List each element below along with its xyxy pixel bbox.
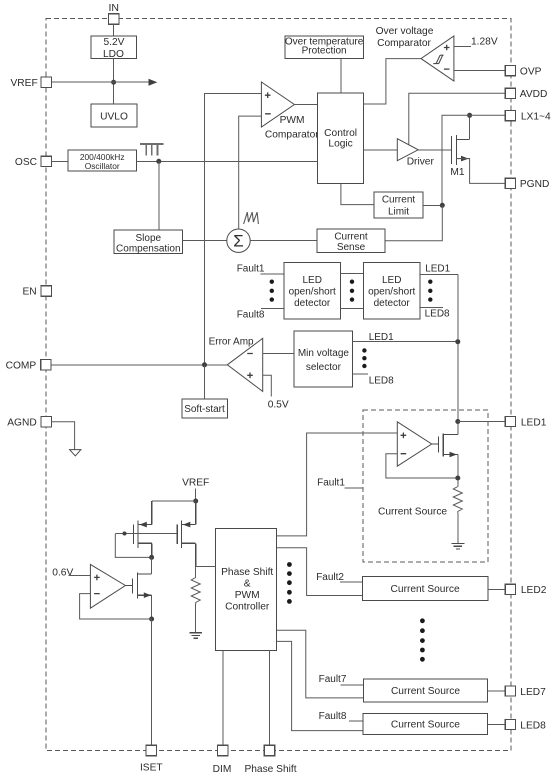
pin PGND	[505, 178, 549, 190]
wire PWM8 to current source 8	[276, 641, 363, 730]
wire driver to M1 gate	[418, 149, 451, 151]
svg-text:Protection: Protection	[302, 46, 347, 57]
svg-text:LED: LED	[382, 275, 401, 286]
svg-text:VREF: VREF	[182, 478, 209, 489]
net 0.6V	[52, 567, 90, 578]
wire ISET node to controller	[196, 566, 216, 568]
wire PWM7 to current source 7	[276, 630, 363, 698]
svg-text:detector: detector	[294, 298, 331, 309]
svg-text:Current: Current	[382, 195, 416, 206]
net LED8 detector label	[420, 307, 450, 319]
wire AGND to ground	[51, 422, 74, 450]
svg-text:Fault7: Fault7	[319, 674, 347, 685]
wire LED1 sense vertical	[457, 275, 459, 422]
wire over temperature to control logic	[340, 59, 342, 94]
svg-text:EN: EN	[22, 287, 36, 298]
pin LED2	[505, 584, 546, 596]
wire LDO to UVLO	[113, 58, 115, 104]
svg-text:AVDD: AVDD	[520, 89, 548, 100]
wire source to sense resistor	[457, 455, 459, 487]
wire control logic to driver	[363, 149, 397, 151]
svg-text:PWM: PWM	[280, 115, 305, 126]
wire AVDD to driver supply	[409, 93, 506, 144]
svg-text:Control: Control	[324, 128, 357, 139]
svg-text:LED: LED	[302, 275, 321, 286]
svg-text:Min voltage: Min voltage	[298, 348, 350, 359]
net Fault7 label	[319, 674, 364, 685]
pin OVP	[505, 66, 541, 78]
wire between detectors bottom	[341, 307, 364, 309]
svg-text:open/short: open/short	[368, 286, 415, 297]
op-amp U6 error amp	[209, 336, 263, 391]
svg-text:ISET: ISET	[140, 762, 163, 773]
pin IN	[108, 2, 119, 24]
wire summer to current sense	[250, 240, 317, 242]
wire comparator minus to OVP	[454, 69, 505, 71]
pin AVDD	[505, 88, 547, 100]
ground analog arrow	[70, 450, 81, 456]
svg-text:5.2V: 5.2V	[104, 37, 125, 48]
node VREF rail junction	[193, 499, 198, 504]
current source 7 block	[363, 679, 487, 702]
svg-text:Oscillator: Oscillator	[85, 161, 120, 171]
svg-text:Over voltage: Over voltage	[376, 26, 434, 37]
pin Phase Shift	[244, 745, 296, 775]
ground ISET resistor	[190, 633, 202, 638]
svg-text:Fault1: Fault1	[237, 263, 265, 274]
wire M1 drain to LX node	[469, 115, 471, 139]
pin LX1~4	[505, 111, 551, 123]
svg-text:Fault8: Fault8	[237, 309, 265, 320]
wire feedback to op-amp minus	[80, 594, 152, 619]
wire diode connection	[115, 534, 151, 558]
net Fault1 current source stub	[317, 478, 363, 489]
wire drain to LED1 node	[457, 422, 459, 435]
net 1.28V	[454, 37, 498, 48]
wire LX rail	[442, 115, 505, 205]
svg-text:Comparator: Comparator	[265, 129, 319, 140]
pin LED8	[505, 719, 546, 731]
UVLO block	[91, 104, 137, 127]
svg-text:AGND: AGND	[7, 418, 36, 429]
wire to LED2 pin	[488, 588, 506, 590]
wire resistor to ground	[195, 604, 197, 633]
wire IN to LDO	[113, 24, 115, 36]
node fault dots column	[270, 280, 274, 302]
pin OSC	[15, 156, 51, 168]
svg-text:OVP: OVP	[520, 66, 542, 77]
net Fault1 label	[237, 263, 284, 274]
wire current limit to LX sense line	[423, 204, 443, 206]
svg-text:LED8: LED8	[369, 375, 394, 386]
wire to LED7 pin	[488, 690, 506, 692]
comparator U4 over voltage	[376, 26, 454, 81]
node LED1 junction	[455, 339, 460, 344]
svg-text:VREF: VREF	[11, 78, 38, 89]
wire over voltage comparator output to control logic	[363, 59, 421, 104]
svg-text:Phase Shift: Phase Shift	[244, 764, 296, 775]
node controller dots column	[287, 562, 292, 604]
wire PWM1 to op-amp plus	[276, 433, 397, 536]
current limit block	[374, 192, 423, 218]
net LED8 selector label	[353, 374, 394, 386]
node selector dots column	[362, 348, 366, 368]
resistor R1 sense	[453, 487, 462, 514]
svg-text:PGND: PGND	[520, 179, 549, 190]
node right dots column	[428, 280, 432, 302]
transistor M1	[452, 135, 470, 165]
node COMP junction	[202, 362, 207, 367]
svg-text:PWM: PWM	[235, 590, 260, 601]
svg-text:LDO: LDO	[103, 49, 124, 60]
wire NMOS drain to mirror	[151, 557, 153, 574]
wire current sense to node	[385, 205, 442, 240]
net VREF label	[182, 478, 209, 502]
net LED1 selector label	[353, 332, 458, 343]
svg-text:OSC: OSC	[15, 157, 37, 168]
svg-text:Logic: Logic	[328, 139, 352, 150]
svg-text:Current Source: Current Source	[391, 686, 460, 697]
LDO U1 5.2V	[91, 36, 137, 60]
wire OSC to oscillator	[51, 160, 68, 162]
wire junction to soft start	[204, 365, 206, 399]
node current limit junction	[440, 203, 445, 208]
chip boundary dashed	[46, 18, 511, 750]
pin EN	[22, 286, 51, 298]
svg-text:Current Source: Current Source	[391, 720, 460, 731]
current source 8 block	[363, 714, 488, 735]
pin ISET	[140, 745, 163, 773]
wire COMP net vertical to PWM comparator plus	[205, 94, 262, 365]
node mirror drain junction	[149, 555, 154, 560]
wire to LED8 pin	[488, 724, 506, 726]
wire control logic to current limit	[341, 184, 374, 205]
wire resistor to ground	[457, 513, 459, 543]
svg-text:Error Amp: Error Amp	[209, 336, 254, 347]
svg-text:Current Source: Current Source	[391, 584, 460, 595]
wire DIM	[222, 650, 224, 745]
svg-text:Slope: Slope	[136, 233, 162, 244]
svg-text:selector: selector	[306, 362, 342, 373]
wire oscillator to control logic	[136, 160, 317, 162]
wire VREF rail with arrow	[51, 81, 149, 83]
svg-text:LED1: LED1	[425, 264, 450, 275]
svg-text:UVLO: UVLO	[100, 111, 128, 122]
svg-text:Controller: Controller	[225, 602, 270, 613]
pin VREF	[11, 77, 52, 89]
svg-text:Phase Shift: Phase Shift	[221, 567, 273, 578]
phase shift PWM controller block	[216, 529, 277, 651]
wire slope compensation to summer	[183, 240, 227, 242]
slope compensation block	[114, 230, 183, 254]
summing junction U2 sigma	[227, 229, 250, 252]
node source junction	[455, 476, 460, 481]
svg-text:Sense: Sense	[337, 242, 366, 253]
wire junction down to slope compensation	[158, 161, 160, 230]
svg-text:LX1~4: LX1~4	[521, 112, 551, 123]
svg-text:LED2: LED2	[521, 585, 547, 596]
svg-text:Current: Current	[334, 232, 368, 243]
svg-text:IN: IN	[108, 2, 119, 14]
ground current source	[451, 543, 464, 549]
wire op-amp feedback	[386, 454, 458, 478]
net Fault2 label	[316, 572, 362, 583]
transistor Q4 NMOS ISET	[125, 573, 151, 599]
resistor R2 ISET	[191, 578, 200, 605]
svg-text:M1: M1	[450, 167, 464, 178]
current source 1 dashed box	[363, 410, 488, 562]
svg-text:detector: detector	[374, 298, 411, 309]
svg-text:0.5V: 0.5V	[268, 400, 289, 411]
node channel dots column	[420, 618, 425, 661]
pin LED1	[505, 416, 546, 428]
LED open short detector block 2	[363, 263, 420, 320]
svg-text:DIM: DIM	[213, 764, 232, 775]
node oscillator junction	[156, 159, 161, 164]
op-amp U8 ISET amp	[90, 564, 125, 608]
control logic block	[317, 93, 363, 184]
LED open short detector block 1	[284, 263, 341, 320]
wire summer to PWM comparator minus	[239, 116, 262, 229]
pin COMP	[6, 360, 51, 372]
min voltage selector block	[294, 331, 353, 387]
oscillator block 200/400kHz	[68, 150, 136, 171]
net 0.5V to error amp plus	[263, 375, 289, 410]
wire between detectors top	[341, 272, 364, 274]
svg-text:Fault8: Fault8	[319, 711, 347, 722]
svg-text:Driver: Driver	[407, 157, 435, 168]
svg-text:0.6V: 0.6V	[52, 567, 73, 578]
wire error amp minus to min voltage selector	[263, 353, 295, 355]
net Fault8 label	[237, 308, 284, 320]
svg-text:1.28V: 1.28V	[471, 37, 498, 48]
pin LED7	[505, 686, 546, 698]
op-amp U7 current source 1	[397, 422, 431, 466]
over temperature protection block	[285, 36, 364, 58]
wire NMOS source to ISET line	[151, 595, 153, 619]
pin DIM	[213, 745, 232, 775]
wire VREF rail	[152, 500, 196, 502]
wire to ISET pin	[151, 619, 153, 745]
svg-text:LED8: LED8	[425, 309, 450, 320]
svg-text:Fault1: Fault1	[317, 478, 345, 489]
node LED1 pin junction	[455, 419, 460, 424]
wire gate link	[115, 533, 177, 535]
svg-text:LED7: LED7	[520, 687, 546, 698]
svg-text:open/short: open/short	[289, 286, 336, 297]
wire PWM comparator output to control logic	[294, 104, 317, 106]
node middle dots column	[350, 280, 354, 302]
svg-text:Current Source: Current Source	[378, 507, 447, 518]
net Fault8 label bottom	[319, 711, 364, 722]
sawtooth waveform symbol	[244, 212, 259, 224]
node LX junction	[467, 113, 472, 118]
wire COMP to error amp	[51, 364, 227, 366]
current source 2 block	[362, 576, 487, 600]
wire to LED1 pin	[458, 421, 506, 423]
pin AGND	[7, 417, 51, 429]
clock waveform symbol	[140, 144, 163, 156]
svg-text:Fault2: Fault2	[316, 572, 344, 583]
node feedback junction	[149, 617, 154, 622]
svg-text:LED8: LED8	[520, 720, 546, 731]
svg-text:Σ: Σ	[233, 232, 244, 251]
svg-text:COMP: COMP	[6, 360, 37, 371]
svg-text:Comparator: Comparator	[377, 38, 431, 49]
wire node to resistor	[195, 567, 197, 578]
current sense block	[317, 229, 385, 253]
wire M1 source to PGND	[456, 159, 505, 184]
transistor Q2 PMOS mirror left	[133, 501, 151, 557]
node VREF junction	[111, 80, 116, 85]
svg-text:&: &	[244, 579, 251, 590]
net LED1 detector label	[420, 264, 458, 275]
svg-text:Limit: Limit	[388, 207, 409, 218]
soft start block	[182, 399, 228, 418]
wire phase shift	[269, 650, 271, 745]
transistor Q1 current source	[432, 434, 458, 457]
svg-text:LED1: LED1	[521, 417, 547, 428]
svg-text:Compensation: Compensation	[116, 243, 180, 254]
transistor Q3 PMOS mirror right	[177, 501, 195, 567]
op-amp U3 PWM comparator	[261, 82, 319, 140]
svg-text:Soft-start: Soft-start	[184, 404, 225, 415]
wire PWM2 to current source 2	[276, 548, 362, 596]
buffer U5 driver	[397, 139, 434, 168]
